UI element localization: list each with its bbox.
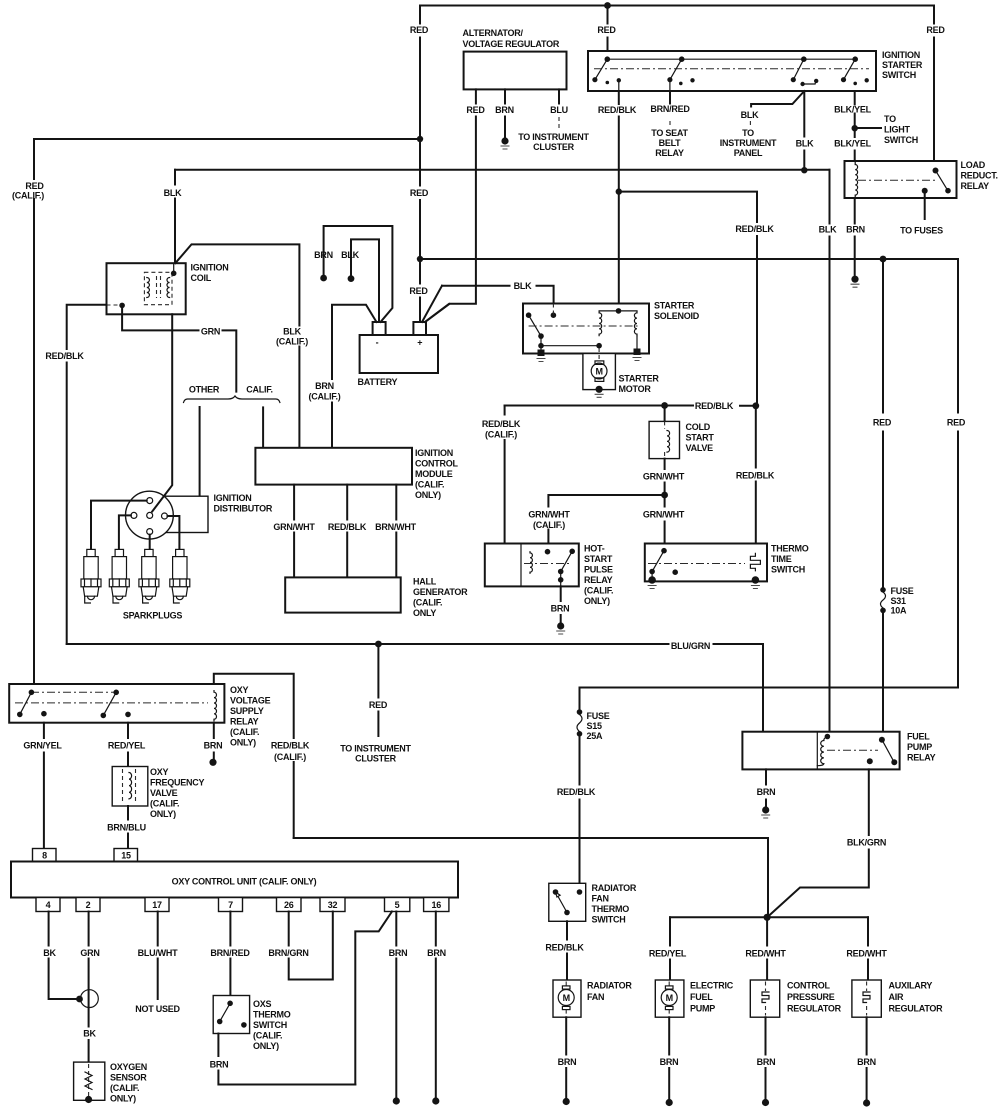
wire: BRN from oxy relay to ground bbox=[213, 723, 215, 760]
svg-text:17: 17 bbox=[152, 900, 162, 910]
cold start valve Y1 bbox=[664, 406, 666, 422]
svg-text:TO FUSES: TO FUSES bbox=[900, 226, 943, 236]
svg-text:BRN/RED: BRN/RED bbox=[650, 104, 690, 114]
svg-text:BRN/GRN: BRN/GRN bbox=[268, 948, 308, 958]
wire: RED/BLK down to thermo time switch right bbox=[755, 406, 757, 554]
svg-text:(CALIF.: (CALIF. bbox=[413, 598, 442, 608]
svg-text:(CALIF.): (CALIF.) bbox=[276, 337, 308, 347]
oxy relay contact 2 bbox=[113, 690, 119, 696]
wire: BK from terminal 4 to connector circle bbox=[49, 912, 78, 1000]
wire: BLK vertical from contact3 down to line C bbox=[803, 91, 805, 171]
oxy control unit U5 bbox=[11, 862, 458, 898]
wire: plug 4 lead bbox=[168, 516, 180, 549]
svg-text:BRN: BRN bbox=[495, 105, 514, 115]
wire: branch to light switch bbox=[855, 127, 881, 129]
wire: RED right vertical x=934 from top rail to load reduct relay contact bbox=[933, 6, 935, 171]
connector circle junction bbox=[81, 990, 99, 1008]
svg-text:BLK/GRN: BLK/GRN bbox=[847, 838, 886, 848]
svg-text:OXY: OXY bbox=[150, 767, 169, 777]
radiator fan thermo switch S4 bbox=[549, 883, 586, 921]
wire: BLU/WHT from terminal 17 (not used) bbox=[157, 912, 159, 1000]
svg-text:32: 32 bbox=[328, 900, 338, 910]
wire: line B horizontal y=139 from x=34 to RED vertical bbox=[34, 138, 420, 140]
ground: BRN alternator ground dot bbox=[501, 137, 508, 144]
fuel pump relay coil bbox=[825, 734, 831, 740]
svg-text:RED: RED bbox=[25, 181, 44, 191]
svg-text:BRN: BRN bbox=[558, 1057, 577, 1067]
svg-text:ONLY): ONLY) bbox=[110, 1094, 136, 1104]
svg-text:SWITCH: SWITCH bbox=[884, 135, 918, 145]
wire: RED/BLK horizontal y=405.6 (starter to cold start valve) bbox=[505, 405, 756, 407]
wire: RED/BLK from thermo switch to radiator fan bbox=[566, 921, 568, 980]
svg-text:BRN/WHT: BRN/WHT bbox=[375, 522, 416, 532]
svg-text:IGNITION: IGNITION bbox=[214, 493, 252, 503]
starter motor M1 bbox=[583, 354, 616, 390]
wire: BRN below auxilary air regulator bbox=[866, 1017, 868, 1101]
svg-text:RELAY: RELAY bbox=[907, 753, 936, 763]
svg-text:INSTRUMENT: INSTRUMENT bbox=[720, 138, 777, 148]
svg-text:M: M bbox=[666, 993, 673, 1003]
ignition distributor bbox=[160, 496, 208, 532]
wire: BRN below radiator fan bbox=[565, 1017, 567, 1099]
wire: RED to instrument cluster bbox=[377, 644, 379, 736]
wire: RED/YEL drop to electric fuel pump bbox=[669, 917, 671, 980]
svg-text:TO INSTRUMENT: TO INSTRUMENT bbox=[340, 744, 411, 754]
ground: oxy relay BRN dot bbox=[209, 759, 216, 766]
svg-text:(CALIF.): (CALIF.) bbox=[533, 520, 565, 530]
svg-text:BRN/BLU: BRN/BLU bbox=[107, 823, 146, 833]
wire: OTHER branch down to distributor points bbox=[199, 407, 201, 496]
svg-text:BK: BK bbox=[43, 948, 56, 958]
svg-text:PANEL: PANEL bbox=[734, 148, 763, 158]
load reduction relay K1 bbox=[845, 161, 957, 198]
ground: fuel pump relay BRN bbox=[762, 806, 769, 813]
distributor cap towers bbox=[147, 498, 153, 504]
wire: line D horizontal y=259 bbox=[420, 258, 958, 260]
wire: plug 3 lead bbox=[149, 535, 151, 550]
thermo element bbox=[750, 553, 760, 571]
svg-text:(CALIF.: (CALIF. bbox=[230, 727, 259, 737]
node: dot instrument cluster branch bbox=[375, 641, 382, 648]
load relay contact bbox=[933, 168, 939, 174]
svg-text:OTHER: OTHER bbox=[189, 385, 220, 395]
wire: relay coil feed up and over to RED/BLK (CALIF.) bbox=[214, 674, 294, 838]
svg-text:(CALIF.: (CALIF. bbox=[415, 480, 444, 490]
radiator fan M2 bbox=[553, 980, 581, 1017]
svg-text:RED/WHT: RED/WHT bbox=[846, 949, 887, 959]
ground: BRN load relay ground bbox=[851, 276, 858, 283]
oxy relay coil bbox=[214, 691, 217, 721]
svg-text:GENERATOR: GENERATOR bbox=[413, 587, 468, 597]
wire: BRN/RED from terminal 7 to OXS thermo switch bbox=[229, 912, 231, 996]
svg-text:REGULATOR: REGULATOR bbox=[787, 1004, 842, 1014]
oxygen sensor B1 bbox=[74, 1062, 105, 1100]
svg-text:RED/BLK: RED/BLK bbox=[736, 471, 775, 481]
svg-text:BLU/WHT: BLU/WHT bbox=[138, 948, 178, 958]
wire: BLK (CALIF.) from coil corner to control module bbox=[175, 244, 299, 447]
svg-text:VOLTAGE REGULATOR: VOLTAGE REGULATOR bbox=[463, 39, 560, 49]
svg-text:BRN: BRN bbox=[210, 1060, 229, 1070]
svg-text:BRN: BRN bbox=[757, 1057, 776, 1067]
svg-text:2: 2 bbox=[86, 900, 91, 910]
node: dot BLK joins line C bbox=[801, 167, 807, 173]
svg-text:BLK: BLK bbox=[164, 188, 182, 198]
node: distribution junction dot bbox=[764, 914, 771, 921]
solenoid pull-in coil bbox=[599, 311, 602, 335]
svg-text:8: 8 bbox=[42, 851, 47, 861]
svg-text:BLK/YEL: BLK/YEL bbox=[834, 139, 872, 149]
svg-text:CLUSTER: CLUSTER bbox=[355, 754, 397, 764]
wire: BRN/RED stub from switch contact2 bbox=[669, 91, 671, 104]
svg-text:AUXILARY: AUXILARY bbox=[889, 981, 933, 991]
svg-text:RADIATOR: RADIATOR bbox=[587, 981, 632, 991]
svg-text:DISTRIBUTOR: DISTRIBUTOR bbox=[214, 504, 273, 514]
hall generator U4 bbox=[285, 577, 401, 612]
distributor rotor line + coil HT wire bbox=[152, 314, 172, 511]
coil inner dashed transformer bbox=[144, 272, 172, 304]
wire: alternator BLU output stub bbox=[558, 89, 560, 103]
terminal 32 connector bbox=[320, 898, 345, 912]
wire: RED/BLK branch to cold start valve line bbox=[619, 192, 757, 406]
wire: battery + diagonals bbox=[422, 286, 449, 322]
svg-text:RED/BLK: RED/BLK bbox=[695, 401, 734, 411]
svg-text:AIR: AIR bbox=[889, 992, 905, 1002]
svg-text:RED: RED bbox=[597, 25, 616, 35]
brace grouping OTHER/CALIF bbox=[184, 396, 280, 403]
wire: GRN/WHT below cold start valve bbox=[664, 459, 666, 495]
node: dot cold start valve branch bbox=[661, 402, 668, 409]
node: dot at (420,139) line B junction bbox=[417, 136, 423, 142]
sparkplug 2 bbox=[109, 549, 129, 603]
terminal 5 connector bbox=[385, 898, 410, 912]
terminal 7 connector bbox=[219, 898, 243, 912]
switch contact 3 (BLK out) bbox=[801, 56, 807, 62]
wire: BRN below control pressure regulator bbox=[765, 1017, 767, 1100]
svg-text:(CALIF.): (CALIF.) bbox=[274, 752, 306, 762]
svg-text:BLK: BLK bbox=[741, 110, 759, 120]
svg-text:BLK: BLK bbox=[283, 327, 301, 337]
node: dot to light switch branch bbox=[852, 125, 858, 131]
svg-text:COIL: COIL bbox=[191, 273, 212, 283]
svg-text:ONLY): ONLY) bbox=[584, 596, 610, 606]
svg-text:COLD: COLD bbox=[686, 422, 711, 432]
svg-text:(CALIF.: (CALIF. bbox=[584, 586, 613, 596]
svg-text:REDUCT.: REDUCT. bbox=[961, 171, 998, 181]
wire: BLK/GRN from fuel pump relay to distribution node bbox=[767, 769, 869, 917]
svg-text:RED: RED bbox=[410, 188, 429, 198]
ignition coil T1 bbox=[107, 263, 186, 314]
svg-text:BRN: BRN bbox=[551, 604, 570, 614]
auxilary air regulator bbox=[852, 980, 881, 1017]
OXS thermo switch S3 bbox=[213, 996, 249, 1034]
svg-text:BLU/GRN: BLU/GRN bbox=[671, 641, 710, 651]
svg-text:GRN/YEL: GRN/YEL bbox=[23, 741, 62, 751]
svg-text:FAN: FAN bbox=[592, 894, 609, 904]
svg-text:BRN/RED: BRN/RED bbox=[210, 948, 250, 958]
fuel pump relay K5 bbox=[742, 732, 899, 770]
wire: plug 1 lead bbox=[91, 501, 147, 550]
battery G1 bbox=[360, 335, 438, 373]
wire: BLU/GRN long horizontal y=644 bbox=[67, 644, 763, 732]
ignition starter switch S1 bbox=[588, 51, 876, 91]
node: dot at (420,259) line D junction bbox=[417, 256, 423, 262]
wire: terminal 5 jog to BRN return line bbox=[355, 912, 392, 1085]
hot start relay contact bbox=[545, 549, 551, 555]
svg-text:GRN/WHT: GRN/WHT bbox=[273, 522, 315, 532]
svg-text:IGNITION: IGNITION bbox=[882, 50, 920, 60]
svg-text:ONLY): ONLY) bbox=[150, 809, 176, 819]
svg-text:SUPPLY: SUPPLY bbox=[230, 706, 264, 716]
svg-text:ELECTRIC: ELECTRIC bbox=[690, 981, 734, 991]
svg-text:(CALIF.): (CALIF.) bbox=[485, 430, 517, 440]
wire: BLK right drop x=829.5 down to fuel pump relay bbox=[829, 170, 831, 732]
svg-text:TO INSTRUMENT: TO INSTRUMENT bbox=[518, 132, 589, 142]
coil terminal 15 dot bbox=[171, 271, 177, 277]
svg-text:(CALIF.: (CALIF. bbox=[110, 1083, 139, 1093]
svg-text:BRN: BRN bbox=[427, 948, 446, 958]
wire: distribution line y=917 bbox=[670, 916, 868, 918]
wire: RED/BLK (CALIF.) horizontal y=838 to distribution bbox=[294, 838, 768, 917]
svg-text:BRN: BRN bbox=[204, 741, 223, 751]
wire: BRN stub bracket to battery - bbox=[324, 226, 393, 322]
svg-text:(CALIF.: (CALIF. bbox=[253, 1031, 282, 1041]
terminal 4 connector bbox=[36, 898, 60, 912]
svg-text:M: M bbox=[563, 993, 570, 1003]
svg-text:THERMO: THERMO bbox=[253, 1010, 291, 1020]
fuel pump relay contact bbox=[879, 737, 885, 743]
wire: BRN below electric fuel pump bbox=[668, 1017, 670, 1100]
load relay coil bbox=[855, 162, 857, 198]
svg-text:BLK: BLK bbox=[819, 225, 837, 235]
svg-text:PUMP: PUMP bbox=[907, 742, 932, 752]
svg-text:BLK: BLK bbox=[796, 139, 814, 149]
svg-text:SPARKPLUGS: SPARKPLUGS bbox=[123, 611, 183, 621]
wire: RED/BLK from coil term1 left then down to blu/grn line bbox=[67, 305, 107, 644]
wire: RED vertical x=420 from top rail down to battery + bbox=[419, 6, 421, 323]
wire: RED x=883 through fuse S31 down to fuel pump relay bbox=[882, 259, 884, 732]
terminal 26 connector bbox=[277, 898, 302, 912]
svg-text:SWITCH: SWITCH bbox=[771, 565, 805, 575]
svg-text:VALVE: VALVE bbox=[686, 443, 714, 453]
sparkplug 4 bbox=[170, 549, 190, 603]
svg-text:RED/BLK: RED/BLK bbox=[482, 419, 521, 429]
svg-text:SWITCH: SWITCH bbox=[882, 70, 916, 80]
svg-text:VALVE: VALVE bbox=[150, 788, 178, 798]
wire: alternator RED output x=475.9 down to battery + bus bbox=[425, 89, 476, 322]
svg-text:PRESSURE: PRESSURE bbox=[787, 992, 835, 1002]
svg-text:26: 26 bbox=[284, 900, 294, 910]
svg-text:THERMO: THERMO bbox=[592, 904, 630, 914]
svg-text:RELAY: RELAY bbox=[655, 148, 684, 158]
starter solenoid K2 bbox=[523, 304, 649, 354]
oxy relay contact 1 bbox=[29, 690, 35, 696]
svg-text:GRN: GRN bbox=[80, 948, 99, 958]
wire: BRN/GRN loop terminals 26-32 bbox=[289, 912, 333, 980]
svg-text:SWITCH: SWITCH bbox=[253, 1020, 287, 1030]
wire: BRN from hot start relay to ground bbox=[560, 586, 562, 623]
svg-text:BELT: BELT bbox=[659, 138, 682, 148]
wire: GRN/WHT down to thermo time switch bbox=[664, 495, 666, 551]
wire: BRN from load relay to ground bbox=[854, 198, 856, 277]
node: dot RED/BLK join bbox=[752, 402, 759, 409]
wire: BRN (CALIF.) from battery - down to control module bbox=[332, 305, 377, 448]
svg-text:16: 16 bbox=[432, 900, 442, 910]
svg-text:ALTERNATOR/: ALTERNATOR/ bbox=[463, 28, 524, 38]
svg-text:RED/BLK: RED/BLK bbox=[271, 741, 310, 751]
wire: RED/WHT drop to auxilary air regulator bbox=[867, 917, 869, 980]
svg-text:MOTOR: MOTOR bbox=[619, 384, 652, 394]
switch contact 4 (BLK/YEL out) bbox=[852, 56, 858, 62]
svg-text:TIME: TIME bbox=[771, 554, 792, 564]
wire: BRN return from OXS switch bbox=[218, 1034, 355, 1085]
wire: TO FUSES stub bbox=[924, 191, 926, 219]
wire: GRN from coil term1 down and right to brace bbox=[122, 305, 236, 391]
svg-text:BRN: BRN bbox=[846, 225, 865, 235]
svg-text:TO: TO bbox=[742, 128, 754, 138]
wire: BLK diagonal stub from switch contact3 to instrument panel bbox=[751, 91, 804, 107]
svg-text:OXY CONTROL UNIT (CALIF. O: OXY CONTROL UNIT (CALIF. ONLY) bbox=[172, 877, 317, 887]
ignition control module U3 bbox=[255, 448, 412, 485]
svg-text:BLK/YEL: BLK/YEL bbox=[834, 105, 872, 115]
wire: BRN from fuel pump relay to ground bbox=[765, 769, 767, 808]
terminal 8 connector bbox=[33, 849, 57, 862]
wire: GRN from terminal 2 through connector bbox=[88, 912, 90, 1063]
oxy voltage supply relay K4 bbox=[9, 684, 224, 723]
wire: BLK drop at x=175 to ignition coil bbox=[174, 170, 176, 263]
svg-text:M: M bbox=[595, 367, 602, 377]
svg-text:ONLY: ONLY bbox=[413, 608, 436, 618]
svg-text:FUEL: FUEL bbox=[690, 992, 713, 1002]
hot start pulse relay K3 bbox=[485, 544, 579, 587]
svg-text:(CALIF.): (CALIF.) bbox=[12, 191, 44, 201]
oxy frequency valve Y2 bbox=[112, 767, 148, 807]
svg-text:RED/BLK: RED/BLK bbox=[557, 787, 596, 797]
wire: GRN/WHT branch to hot start pulse relay bbox=[548, 495, 664, 551]
svg-text:RELAY: RELAY bbox=[961, 181, 990, 191]
svg-text:HALL: HALL bbox=[413, 577, 437, 587]
svg-text:15: 15 bbox=[121, 851, 131, 861]
svg-text:CALIF.: CALIF. bbox=[246, 385, 273, 395]
svg-text:TO: TO bbox=[884, 114, 896, 124]
svg-text:TO SEAT: TO SEAT bbox=[651, 128, 688, 138]
svg-text:RED/BLK: RED/BLK bbox=[598, 105, 637, 115]
svg-text:RED: RED bbox=[410, 25, 429, 35]
svg-text:ONLY): ONLY) bbox=[230, 738, 256, 748]
svg-text:RED: RED bbox=[369, 700, 388, 710]
svg-text:RED: RED bbox=[466, 105, 485, 115]
svg-text:FUEL: FUEL bbox=[907, 732, 930, 742]
svg-text:VOLTAGE: VOLTAGE bbox=[230, 696, 271, 706]
svg-text:RED: RED bbox=[873, 418, 892, 428]
wire: alternator BRN output to ground bbox=[504, 89, 506, 139]
switch contact 2 (BRN/RED out) bbox=[679, 56, 685, 62]
fuse S15 25A bbox=[577, 709, 583, 715]
sparkplug 1 bbox=[81, 549, 101, 603]
svg-text:RELAY: RELAY bbox=[584, 575, 613, 585]
svg-text:PULSE: PULSE bbox=[584, 565, 613, 575]
svg-text:5: 5 bbox=[395, 900, 400, 910]
node: dot RED/BLK branch at y=191.6 bbox=[616, 188, 622, 194]
svg-text:STARTER: STARTER bbox=[882, 60, 923, 70]
node: junction dot on top rail feeding ignition starter switch bbox=[604, 2, 611, 9]
svg-text:+: + bbox=[417, 338, 422, 348]
wire: switch internal top bus bbox=[607, 58, 855, 60]
electric fuel pump M3 bbox=[655, 980, 684, 1017]
wire: RED/BLK module to hall generator bbox=[346, 485, 348, 578]
svg-text:IGNITION: IGNITION bbox=[415, 448, 453, 458]
svg-text:RADIATOR: RADIATOR bbox=[592, 883, 637, 893]
sparkplug 3 bbox=[139, 549, 159, 603]
wire: RED (CALIF.) vertical x=34 down to oxy voltage supply relay bbox=[33, 139, 35, 684]
node: dot fuse S31 branch bbox=[880, 256, 887, 263]
svg-text:BRN: BRN bbox=[660, 1057, 679, 1067]
svg-text:7: 7 bbox=[228, 900, 233, 910]
svg-text:10A: 10A bbox=[891, 606, 908, 616]
coil terminal 1 dot bbox=[119, 303, 125, 309]
svg-text:4: 4 bbox=[46, 900, 51, 910]
svg-text:NOT USED: NOT USED bbox=[135, 1004, 180, 1014]
svg-text:RED/BLK: RED/BLK bbox=[45, 351, 84, 361]
node: GRN/WHT branch dot bbox=[661, 492, 668, 499]
svg-text:BRN: BRN bbox=[857, 1057, 876, 1067]
svg-text:GRN/WHT: GRN/WHT bbox=[643, 510, 685, 520]
svg-text:REGULATOR: REGULATOR bbox=[889, 1004, 944, 1014]
solenoid hold-in coil bbox=[634, 311, 637, 335]
wire: RED/BLK from switch contact1 down to starter solenoid bbox=[618, 91, 620, 311]
fuse S31 10A bbox=[880, 587, 886, 593]
svg-text:START: START bbox=[584, 554, 613, 564]
svg-text:BK: BK bbox=[83, 1029, 96, 1039]
wire: BRN from terminal 5 to bottom bbox=[395, 912, 397, 1100]
svg-text:RED/YEL: RED/YEL bbox=[649, 949, 687, 959]
wire: CALIF. branch down to control module bbox=[262, 407, 264, 447]
wire: BLK stub bracket to battery - bbox=[351, 239, 379, 322]
svg-text:RED: RED bbox=[947, 418, 966, 428]
svg-text:HOT-: HOT- bbox=[584, 544, 605, 554]
svg-text:RED: RED bbox=[926, 25, 945, 35]
wire: RED x=958 from line D corner down and across y=687.5 bbox=[580, 259, 959, 688]
svg-text:ONLY): ONLY) bbox=[415, 490, 441, 500]
svg-text:CLUSTER: CLUSTER bbox=[533, 142, 575, 152]
svg-text:OXS: OXS bbox=[253, 999, 272, 1009]
terminal 2 connector bbox=[76, 898, 100, 912]
svg-text:BRN: BRN bbox=[315, 381, 334, 391]
svg-text:BRN: BRN bbox=[757, 787, 776, 797]
svg-text:RED/BLK: RED/BLK bbox=[735, 224, 774, 234]
terminal 15 connector bbox=[114, 849, 138, 862]
alternator/voltage regulator U2 bbox=[464, 52, 567, 90]
wire: RED/WHT drop to control pressure regulator bbox=[766, 917, 768, 980]
wire: RED drop from top rail to ignition starter switch bbox=[607, 6, 609, 54]
svg-text:RED/WHT: RED/WHT bbox=[745, 949, 786, 959]
svg-text:CONTROL: CONTROL bbox=[787, 981, 830, 991]
svg-text:LOAD: LOAD bbox=[961, 160, 986, 170]
svg-text:FAN: FAN bbox=[587, 992, 604, 1002]
terminal 17 connector bbox=[145, 898, 169, 912]
wire: BRN/BLU from valve to terminal 15 bbox=[127, 806, 129, 849]
wire: x=579.5 down through fuse S15 to radiator fan thermo switch bbox=[579, 688, 581, 884]
svg-text:-: - bbox=[376, 338, 379, 348]
wire: plug 2 lead bbox=[119, 515, 131, 549]
control pressure regulator bbox=[750, 980, 779, 1017]
svg-text:FREQUENCY: FREQUENCY bbox=[150, 778, 205, 788]
svg-text:SOLENOID: SOLENOID bbox=[654, 311, 700, 321]
svg-text:START: START bbox=[686, 433, 715, 443]
ground: hot start relay BRN bbox=[557, 622, 564, 629]
svg-text:IGNITION: IGNITION bbox=[191, 263, 229, 273]
svg-text:RED: RED bbox=[409, 286, 428, 296]
svg-text:RELAY: RELAY bbox=[230, 717, 259, 727]
